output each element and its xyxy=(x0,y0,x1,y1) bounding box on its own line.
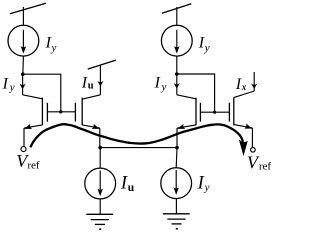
svg-text:u: u xyxy=(88,81,94,92)
svg-text:y: y xyxy=(51,42,57,54)
svg-text:I: I xyxy=(81,75,88,92)
svg-text:x: x xyxy=(241,82,247,92)
svg-text:I: I xyxy=(235,76,242,93)
svg-text:I: I xyxy=(120,174,128,194)
svg-text:y: y xyxy=(204,42,210,54)
svg-text:y: y xyxy=(204,181,210,193)
svg-text:ref: ref xyxy=(259,161,272,173)
svg-text:y: y xyxy=(9,82,15,94)
svg-text:I: I xyxy=(154,74,161,91)
svg-text:ref: ref xyxy=(27,160,40,172)
svg-text:u: u xyxy=(128,182,135,194)
svg-text:I: I xyxy=(197,173,205,193)
svg-text:y: y xyxy=(161,81,167,93)
svg-text:I: I xyxy=(2,75,9,92)
